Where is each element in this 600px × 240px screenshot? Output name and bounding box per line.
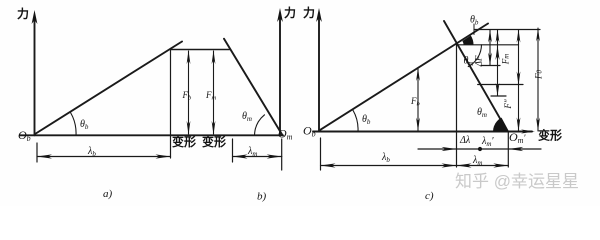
svg-text:Δλ: Δλ — [459, 135, 471, 146]
deformation axis (c) — [313, 130, 535, 134]
preload dimension F' (c) — [416, 68, 420, 131]
angle arc theta_m (b) — [255, 115, 265, 136]
svg-text:θb: θb — [362, 114, 371, 126]
extension line at peak (a) — [170, 49, 172, 159]
angle arc theta_m at crossing (c) — [468, 45, 481, 67]
crossing point extension line (c) — [456, 44, 458, 167]
working load dimension F (c) — [488, 30, 492, 66]
svg-text:Ob: Ob — [18, 128, 31, 143]
origin extension line below Ob (c) — [320, 138, 322, 170]
top horizontal at bolt-force level (c) — [474, 29, 540, 31]
preload dimension F' (b) — [212, 51, 216, 135]
svg-text:Fm: Fm — [205, 90, 217, 102]
svg-text:λm: λm — [472, 155, 482, 167]
horizontal line at preload level (a-b) — [171, 49, 230, 51]
svg-text:λb: λb — [381, 152, 390, 164]
svg-text:λb: λb — [87, 146, 96, 158]
svg-text:Fm: Fm — [501, 54, 511, 66]
leader from theta_b label to wedge (c) — [473, 24, 475, 35]
svg-text:力: 力 — [303, 5, 315, 20]
total bolt force dimension F0 (c) — [536, 28, 540, 131]
svg-text:知乎 @幸运星星: 知乎 @幸运星星 — [455, 172, 579, 191]
svg-text:Fb: Fb — [410, 96, 421, 108]
svg-text:变形: 变形 — [202, 134, 226, 149]
angle arc theta_b (a) — [71, 113, 77, 136]
bolt characteristic line (c) — [320, 24, 489, 131]
total force dimension part (c) — [517, 30, 521, 132]
dimension lambda_m (b) — [233, 139, 282, 170]
svg-text:力: 力 — [17, 6, 29, 21]
C-level leader line from member line (c) — [478, 84, 523, 86]
force axis (c) — [316, 8, 322, 132]
upper dimension row leader with arrows (c) — [418, 147, 541, 151]
svg-text:λm′: λm′ — [481, 136, 494, 148]
svg-text:θb: θb — [80, 119, 89, 131]
horizontal at preload crossing level (c) — [457, 44, 519, 46]
svg-text:Fb: Fb — [182, 90, 193, 102]
svg-text:θm: θm — [464, 56, 474, 68]
shared deformation axis (a,b) — [20, 134, 283, 136]
svg-text:F″: F″ — [503, 99, 513, 109]
svg-text:Ob: Ob — [303, 124, 316, 139]
svg-text:力: 力 — [284, 5, 296, 20]
angle wedge theta_m at foot (c) — [493, 118, 509, 132]
dimension lambda_m (c) — [457, 163, 509, 167]
svg-text:λm: λm — [247, 146, 257, 158]
dimension lambda_b (a) — [37, 143, 171, 162]
svg-text:Om: Om — [278, 127, 293, 142]
preload dimension F' (a) — [187, 51, 191, 135]
svg-text:ΔF: ΔF — [474, 55, 484, 67]
angle arc theta_b at origin (c) — [353, 110, 358, 132]
short horizontal tick at u2 foot (c) — [491, 95, 506, 97]
bolt characteristic line (a) — [35, 42, 182, 135]
svg-text:θm: θm — [242, 111, 252, 123]
svg-text:b): b) — [257, 191, 267, 203]
dimension lambda_b (c) — [321, 163, 457, 167]
svg-text:变形: 变形 — [538, 128, 562, 143]
member foot extension line (c) — [507, 132, 509, 168]
force axis (b) — [277, 8, 283, 135]
force axis (a) — [32, 10, 38, 135]
svg-text:c): c) — [425, 190, 434, 202]
angle wedge theta_b at crossing (c) — [462, 36, 473, 45]
member characteristic line (b) — [224, 39, 283, 136]
residual force dimension (c) — [495, 30, 499, 97]
svg-text:a): a) — [103, 188, 113, 200]
svg-text:θm: θm — [477, 107, 487, 119]
short horizontal tick at F level (c) — [481, 65, 500, 67]
svg-text:F0: F0 — [534, 70, 544, 81]
svg-text:变形: 变形 — [172, 134, 196, 149]
member characteristic line (c) — [444, 21, 508, 132]
